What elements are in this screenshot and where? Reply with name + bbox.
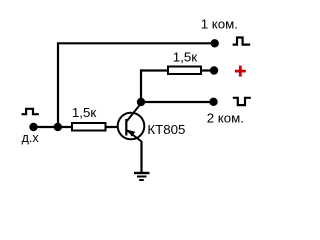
svg-text:1 ком.: 1 ком.: [201, 17, 238, 32]
svg-text:1,5к: 1,5к: [72, 105, 96, 120]
svg-text:1,5к: 1,5к: [173, 50, 197, 65]
svg-text:д.х: д.х: [22, 131, 40, 145]
svg-text:КТ805: КТ805: [147, 122, 185, 137]
svg-text:2 ком.: 2 ком.: [207, 110, 244, 125]
